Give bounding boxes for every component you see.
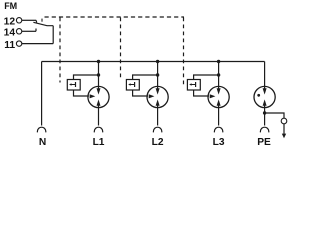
disconnector box L2	[126, 80, 139, 91]
svg-text:N: N	[39, 137, 46, 147]
spark gap bottom arrow	[263, 99, 267, 105]
dashed divider 1	[59, 18, 61, 83]
disconnector symbol L3	[195, 82, 197, 87]
disconnector box L1	[67, 80, 80, 91]
spark gap top arrow	[263, 88, 267, 94]
ground arrow	[283, 124, 285, 134]
arrester top arrow	[97, 88, 101, 94]
bus wire N rail	[42, 61, 265, 63]
wire disconnector to arrester L1	[74, 90, 89, 96]
mechanical link dashes	[41, 19, 43, 22]
wire to disconnector L2	[133, 75, 158, 80]
svg-text:L3: L3	[213, 137, 225, 147]
svg-text:14: 14	[4, 28, 16, 39]
contact tick 12	[35, 20, 38, 22]
wire switch to 11	[52, 26, 54, 44]
terminal fork L1	[94, 127, 102, 132]
wire disconnector to arrester L2	[133, 90, 148, 96]
N branch wire	[41, 62, 43, 126]
disconnector symbol L2	[134, 82, 136, 87]
arrester top arrow	[156, 88, 160, 94]
terminal fork L2	[153, 127, 161, 132]
wire L2 lower	[157, 105, 159, 126]
arrester bottom arrow	[97, 99, 101, 105]
node bus junction L2	[156, 60, 159, 63]
disconnector symbol L1	[75, 82, 77, 87]
terminal fork L3	[214, 127, 222, 132]
L2 branch	[126, 60, 168, 148]
wire PE lower	[264, 105, 266, 126]
wire disconnector to arrester L3	[194, 90, 209, 96]
arrowhead into arrester L2	[149, 94, 155, 98]
terminal fork PE	[260, 127, 268, 132]
disconnector box L3	[187, 80, 200, 91]
wire L3 upper	[218, 62, 220, 90]
arrester bottom arrow	[156, 99, 160, 105]
surge arrester U2 circle	[147, 86, 168, 107]
svg-text:FM: FM	[4, 1, 17, 11]
arrowhead into arrester L1	[90, 94, 96, 98]
ground terminal circle	[281, 118, 287, 124]
dashed divider 2	[120, 18, 122, 81]
svg-text:L1: L1	[93, 137, 105, 147]
PE branch	[254, 62, 275, 149]
wire to disconnector L1	[74, 75, 99, 80]
svg-text:PE: PE	[257, 137, 271, 147]
arrester bottom arrow	[217, 99, 221, 105]
surge arrester U1 circle	[88, 86, 109, 107]
dashed enclosure top	[45, 16, 185, 18]
terminal 14 circle	[16, 29, 21, 34]
spark gap U4 circle	[254, 86, 275, 107]
L1 branch	[67, 60, 109, 148]
wire to disconnector L3	[194, 75, 219, 80]
svg-text:12: 12	[4, 17, 16, 28]
svg-text:L2: L2	[152, 137, 164, 147]
wire 14	[22, 30, 36, 32]
node bus junction L1	[97, 60, 100, 63]
L3 branch	[187, 60, 229, 148]
wire L1 upper	[98, 62, 100, 90]
terminal 11 circle	[16, 41, 21, 46]
wire L1 lower	[98, 105, 100, 126]
dashed divider 3	[183, 18, 185, 85]
spark gap dot	[257, 94, 260, 97]
arrowhead into arrester L3	[210, 94, 216, 98]
wire PE to ground terminal	[265, 113, 284, 118]
node branch junction L2	[156, 73, 159, 76]
wire 11	[22, 43, 53, 45]
terminal fork N	[37, 127, 45, 132]
switch arm FM	[33, 22, 53, 25]
node bus junction L3	[217, 60, 220, 63]
wire L2 upper	[157, 62, 159, 90]
contact tick 14	[35, 29, 37, 32]
surge arrester U3 circle	[208, 86, 229, 107]
wire 12	[22, 19, 36, 21]
node PE junction	[263, 111, 266, 114]
node branch junction L3	[217, 73, 220, 76]
node branch junction L1	[97, 73, 100, 76]
terminal 12 circle	[16, 18, 21, 23]
svg-text:11: 11	[4, 40, 15, 51]
wire PE upper	[264, 62, 266, 90]
wire L3 lower	[218, 105, 220, 126]
arrester top arrow	[217, 88, 221, 94]
